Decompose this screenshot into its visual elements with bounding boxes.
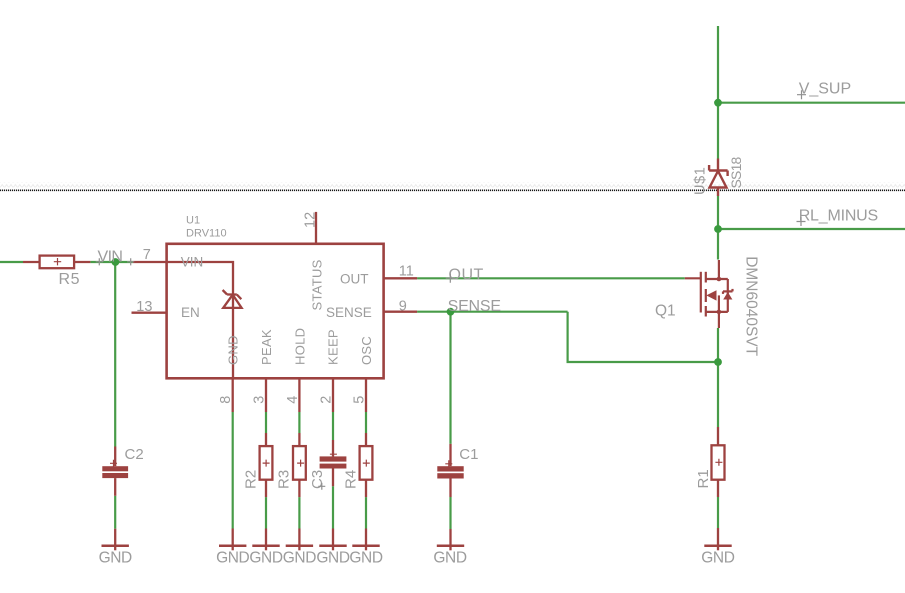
svg-text:SS18: SS18 xyxy=(728,156,744,188)
svg-text:8: 8 xyxy=(218,396,234,404)
svg-text:DMN6040SVT: DMN6040SVT xyxy=(743,256,760,356)
svg-text:Q1: Q1 xyxy=(655,303,676,320)
svg-text:OSC: OSC xyxy=(359,336,374,365)
svg-text:SENSE: SENSE xyxy=(326,305,372,320)
svg-text:PEAK: PEAK xyxy=(259,329,274,365)
svg-text:GND: GND xyxy=(701,550,734,567)
svg-text:HOLD: HOLD xyxy=(292,328,307,365)
svg-text:VIN: VIN xyxy=(98,248,123,265)
svg-text:U1: U1 xyxy=(186,215,200,227)
svg-text:GND: GND xyxy=(226,335,241,365)
svg-text:GND: GND xyxy=(316,550,349,567)
svg-text:R2: R2 xyxy=(243,470,260,489)
svg-text:9: 9 xyxy=(399,299,407,315)
svg-text:GND: GND xyxy=(433,550,466,567)
svg-text:STATUS: STATUS xyxy=(310,259,325,310)
svg-text:V_SUP: V_SUP xyxy=(799,81,851,98)
svg-text:3: 3 xyxy=(252,396,268,404)
svg-text:GND: GND xyxy=(99,550,132,567)
svg-text:OUT: OUT xyxy=(340,272,369,287)
svg-text:DRV110: DRV110 xyxy=(186,228,227,240)
svg-text:EN: EN xyxy=(181,305,200,320)
svg-text:GND: GND xyxy=(283,550,316,567)
svg-text:11: 11 xyxy=(399,264,414,280)
svg-text:SENSE: SENSE xyxy=(448,298,501,315)
svg-text:2: 2 xyxy=(319,396,335,404)
svg-text:RL_MINUS: RL_MINUS xyxy=(799,208,878,225)
svg-text:KEEP: KEEP xyxy=(326,329,341,365)
svg-text:R1: R1 xyxy=(695,469,712,488)
svg-text:R3: R3 xyxy=(275,470,292,489)
svg-text:GND: GND xyxy=(349,550,382,567)
svg-text:7: 7 xyxy=(143,247,151,263)
svg-text:OUT: OUT xyxy=(449,266,484,283)
svg-text:13: 13 xyxy=(136,299,152,315)
svg-text:C1: C1 xyxy=(459,446,478,463)
svg-text:U$1: U$1 xyxy=(693,167,709,195)
svg-text:VIN: VIN xyxy=(181,255,204,270)
svg-text:R4: R4 xyxy=(342,470,359,489)
svg-text:12: 12 xyxy=(302,212,318,228)
svg-text:C2: C2 xyxy=(125,446,144,463)
svg-text:4: 4 xyxy=(285,396,301,404)
svg-text:R5: R5 xyxy=(59,271,81,288)
svg-text:GND: GND xyxy=(249,550,282,567)
svg-text:GND: GND xyxy=(216,550,249,567)
svg-text:5: 5 xyxy=(352,396,368,404)
